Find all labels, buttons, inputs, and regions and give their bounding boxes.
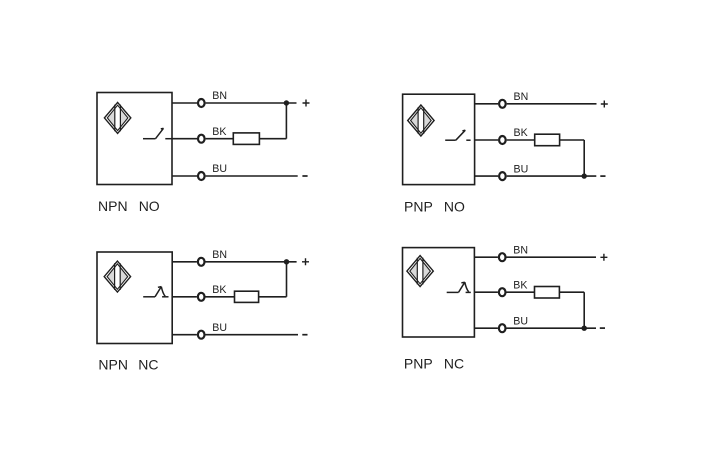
sensor box U1 (NPN NO) xyxy=(97,93,172,185)
wire BK (U3 box to terminal) xyxy=(172,296,197,298)
wire BN (U4 box to terminal) xyxy=(474,256,498,258)
terminal circle BK (U4) xyxy=(499,288,506,296)
terminal circle BK (U2) xyxy=(499,136,506,144)
wire BU (terminal to - rail) xyxy=(507,327,597,329)
wire (corner up to BN junction) xyxy=(286,262,288,297)
minus terminal (PNP NO) xyxy=(600,175,605,177)
wire (load to corner) xyxy=(259,296,287,298)
wire BN (terminal to + rail) xyxy=(507,103,597,105)
load resistor (NPN NO) xyxy=(233,133,259,145)
wire BN (U3 box to terminal) xyxy=(172,261,197,263)
wire BK (U1 box to terminal) xyxy=(172,138,197,140)
wire BU (terminal to - rail) xyxy=(507,175,597,177)
svg-text:NPN: NPN xyxy=(98,357,128,373)
wire BK (terminal to load) xyxy=(507,291,535,293)
wire BK (U4 box to terminal) xyxy=(474,291,498,293)
sensor box U3 (NPN NC) xyxy=(97,252,172,344)
wire (load to corner) xyxy=(559,291,584,293)
wire BU (U3 box to terminal) xyxy=(172,334,197,336)
svg-text:BK: BK xyxy=(212,284,226,296)
NC switch contact (U3) xyxy=(143,287,168,297)
junction dot (BU / load) xyxy=(582,173,587,178)
load resistor (NPN NC) xyxy=(235,291,259,302)
svg-text:BU: BU xyxy=(514,163,529,175)
terminal circle BU (U3) xyxy=(198,331,205,339)
plus terminal (PNP NO) xyxy=(601,101,608,108)
terminal circle BK (U1) xyxy=(198,135,205,143)
wire BU (U4 box to terminal) xyxy=(474,327,498,329)
svg-text:BN: BN xyxy=(514,91,529,103)
wire BK (U2 box to terminal) xyxy=(475,139,499,141)
wire BK (terminal to load) xyxy=(507,139,535,141)
wire BK (terminal to load) xyxy=(206,296,235,298)
svg-text:PNP: PNP xyxy=(404,355,433,371)
terminal circle BU (U1) xyxy=(198,172,205,180)
svg-text:BK: BK xyxy=(513,279,527,291)
svg-text:PNP: PNP xyxy=(404,198,433,214)
wire BU (U1 box to terminal) xyxy=(172,175,197,177)
proximity sensor symbol (U1 diamond) xyxy=(104,102,130,133)
sensor box U2 (PNP NO) xyxy=(403,94,475,184)
wire BN (U2 box to terminal) xyxy=(475,103,499,105)
svg-text:BK: BK xyxy=(514,127,528,139)
wire (corner down to BU junction) xyxy=(583,140,585,176)
minus terminal (NPN NO) xyxy=(302,175,307,177)
svg-text:BK: BK xyxy=(212,126,226,138)
wire BU (terminal to - rail) xyxy=(206,334,299,336)
wire BU (terminal to - rail) xyxy=(206,175,298,177)
wire (corner down to BU junction) xyxy=(583,292,585,328)
wire BU (U2 box to terminal) xyxy=(475,175,499,177)
wire (load to corner) xyxy=(560,139,585,141)
junction dot (BN / load) xyxy=(284,100,289,105)
svg-text:BU: BU xyxy=(212,163,227,175)
wire BK (terminal to load) xyxy=(206,138,234,140)
wire (load to corner) xyxy=(259,138,286,140)
load resistor (PNP NO) xyxy=(535,134,560,146)
sensor box U4 (PNP NC) xyxy=(403,248,475,337)
svg-text:NO: NO xyxy=(444,198,465,214)
svg-text:NC: NC xyxy=(444,355,464,371)
terminal circle BK (U3) xyxy=(198,293,205,301)
NC switch contact (U4) xyxy=(447,282,471,292)
terminal circle BU (U2) xyxy=(499,172,506,180)
terminal circle BN (U1) xyxy=(198,99,205,107)
proximity sensor symbol (U2 diamond) xyxy=(408,105,434,136)
plus terminal (NPN NC) xyxy=(302,258,309,265)
svg-text:NO: NO xyxy=(139,198,160,214)
svg-text:BN: BN xyxy=(212,90,227,102)
wire (corner up to BN junction) xyxy=(285,103,287,139)
wire BN (U1 box to terminal) xyxy=(172,102,197,104)
wire BN (terminal to + rail) xyxy=(206,102,297,104)
svg-text:NC: NC xyxy=(138,357,158,373)
terminal circle BN (U3) xyxy=(198,258,205,266)
svg-text:BU: BU xyxy=(513,315,528,327)
minus terminal (NPN NC) xyxy=(302,334,307,336)
plus terminal (NPN NO) xyxy=(303,100,310,107)
wire BN (terminal to + rail) xyxy=(507,256,597,258)
junction dot (BN / load) xyxy=(284,259,289,264)
svg-text:BN: BN xyxy=(212,249,227,261)
wire BN (terminal to + rail) xyxy=(206,261,297,263)
terminal circle BN (U4) xyxy=(499,253,506,261)
svg-text:BN: BN xyxy=(513,244,528,256)
NO switch contact (U1) xyxy=(143,128,172,138)
svg-text:BU: BU xyxy=(212,322,227,334)
load resistor (PNP NC) xyxy=(535,287,560,299)
terminal circle BN (U2) xyxy=(499,100,506,108)
minus terminal (PNP NC) xyxy=(600,327,605,329)
svg-text:NPN: NPN xyxy=(98,198,128,214)
junction dot (BU / load) xyxy=(582,326,587,331)
proximity sensor symbol (U3 diamond) xyxy=(104,261,130,292)
plus terminal (PNP NC) xyxy=(600,254,607,261)
proximity sensor symbol (U4 diamond) xyxy=(407,256,433,287)
NO switch contact (U2) xyxy=(445,130,470,140)
terminal circle BU (U4) xyxy=(499,324,506,332)
